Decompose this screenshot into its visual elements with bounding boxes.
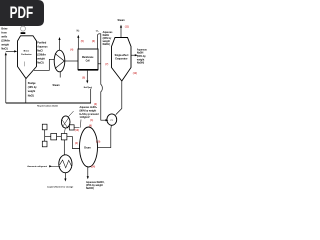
purified brine text [37,41,48,64]
PDF badge [0,0,44,26]
svg-text:(8): (8) [82,77,85,80]
valve block A [51,134,57,140]
svg-text:(236t/hr: (236t/hr [37,53,46,56]
svg-text:(5): (5) [81,40,84,43]
svg-text:Ammonia refrigerant: Ammonia refrigerant [27,165,47,168]
sludge text [28,83,38,97]
svg-text:(12): (12) [133,72,137,75]
drum dryer D1 [80,127,98,167]
H2 riser [77,38,79,50]
svg-text:Evaporator: Evaporator [115,57,127,60]
svg-text:(6): (6) [92,40,95,43]
svg-text:wells: wells [1,36,8,39]
svg-text:(13): (13) [75,129,79,132]
acid wire to drum [79,120,82,128]
pump P1 [107,114,117,125]
chlorine outlet arrow [64,173,66,180]
svg-text:Purified: Purified [37,41,46,44]
svg-text:Cl₂: Cl₂ [96,30,99,32]
valve train wire [45,137,80,149]
svg-text:(33% by: (33% by [103,38,112,40]
svg-text:weight: weight [28,90,36,93]
svg-text:Single-effect: Single-effect [115,54,129,57]
svg-text:H₂SO₄) ρ=around: H₂SO₄) ρ=around [80,114,100,116]
V1 label [21,51,32,56]
Cl2 riser hook [98,34,107,120]
valve block E [69,125,74,130]
wire V1 to HX [34,59,54,70]
svg-text:Steam: Steam [118,19,125,22]
svg-text:H₂: H₂ [77,29,80,32]
NaOH side tick wire [98,63,101,65]
cell bottom outlet [86,71,88,82]
svg-text:Recycled sodium chloride: Recycled sodium chloride [37,106,58,108]
svg-text:Aqueous H₂SO₄: Aqueous H₂SO₄ [80,106,98,109]
svg-text:Steam: Steam [53,84,60,87]
svg-text:from: from [1,32,6,35]
svg-text:(14): (14) [91,166,95,169]
sludge line from V1 cone [25,79,27,103]
drum bottoms arrow [87,167,89,177]
sulfuric acid text [80,106,100,119]
svg-text:NaOH): NaOH) [137,63,144,65]
svg-text:weight: weight [103,40,111,43]
svg-text:Brine: Brine [1,28,8,31]
wire block E to drum [74,127,79,129]
svg-text:NaCl): NaCl) [37,61,43,64]
steam arrow E1 [120,27,122,38]
svg-text:NaOH): NaOH) [103,44,110,46]
svg-text:NaCl: NaCl [37,49,43,52]
compressor K1 [61,116,70,128]
valve block C [42,124,47,130]
V1 internal tick [24,62,26,67]
acid wire to compressor [68,111,73,117]
membrane cell [78,49,98,70]
chiller HX2 [59,155,72,173]
svg-text:(11): (11) [125,26,129,29]
svg-text:(25% by weight: (25% by weight [86,184,103,187]
svg-text:(98% by weight: (98% by weight [80,110,97,113]
feed riser wire [5,55,7,103]
feed inlet wire to V1 [6,50,15,52]
motor gauge on vessel V1 [21,26,26,34]
svg-text:Aqueous: Aqueous [37,45,48,48]
HX1 steam stub [59,72,61,78]
svg-text:NaCl): NaCl) [1,48,7,51]
chiller riser wire [63,140,65,155]
svg-text:Aqueous NaOCl,: Aqueous NaOCl, [86,181,105,184]
svg-text:Brine: Brine [24,51,30,53]
svg-text:weight: weight [1,44,9,47]
svg-text:(3): (3) [94,103,97,106]
pump outlet to drum [98,125,112,147]
svg-text:weight: weight [137,58,145,61]
drum bottoms text [86,181,105,190]
svg-text:Sludge: Sludge [28,83,36,85]
aqueous NaOH 33 text [103,31,114,46]
svg-text:(4): (4) [70,49,73,52]
evaporator E1 [112,38,132,82]
recycle riser from cell outlet label [90,89,92,103]
svg-text:PDF: PDF [10,4,34,22]
svg-text:NaOCl): NaOCl) [86,188,94,190]
compressor drop wire [64,128,65,133]
wire HX to cell [65,60,78,62]
svg-text:weight: weight [37,57,45,60]
valve block D [42,141,47,147]
svg-text:(7): (7) [105,63,108,66]
svg-text:(234t/hr: (234t/hr [1,40,10,43]
svg-text:Liquid chlorine for storage: Liquid chlorine for storage [47,185,74,188]
E1 bottoms wire [116,81,122,115]
HX1 vent arrow [59,40,61,50]
valve block B [61,134,67,140]
heat exchanger HX1 [54,50,65,72]
svg-text:(1): (1) [90,119,93,122]
svg-text:(10% by: (10% by [28,87,38,89]
ammonia inlet wire [49,165,52,167]
svg-text:(2): (2) [75,142,78,145]
aqueous NaOH 50 text [137,48,148,64]
svg-text:NaOH: NaOH [103,35,110,37]
svg-text:Drum: Drum [84,147,91,150]
svg-text:Aqueous: Aqueous [103,31,114,34]
brine feed text [1,28,10,51]
svg-text:NaCl): NaCl) [28,95,34,97]
svg-text:NaOH: NaOH [137,53,144,55]
svg-text:Aqueous: Aqueous [137,48,148,51]
vessel V1 brine purifier [18,36,37,79]
svg-text:NaCl(aq): NaCl(aq) [84,87,93,89]
recycle header wire [6,102,91,104]
NaOH product arrow [131,54,136,56]
left manifold wire [44,124,46,147]
svg-text:Membrane: Membrane [82,57,94,59]
svg-text:Cell: Cell [86,60,91,62]
svg-text:(50% by: (50% by [137,56,147,58]
svg-text:Purification: Purification [21,53,32,56]
